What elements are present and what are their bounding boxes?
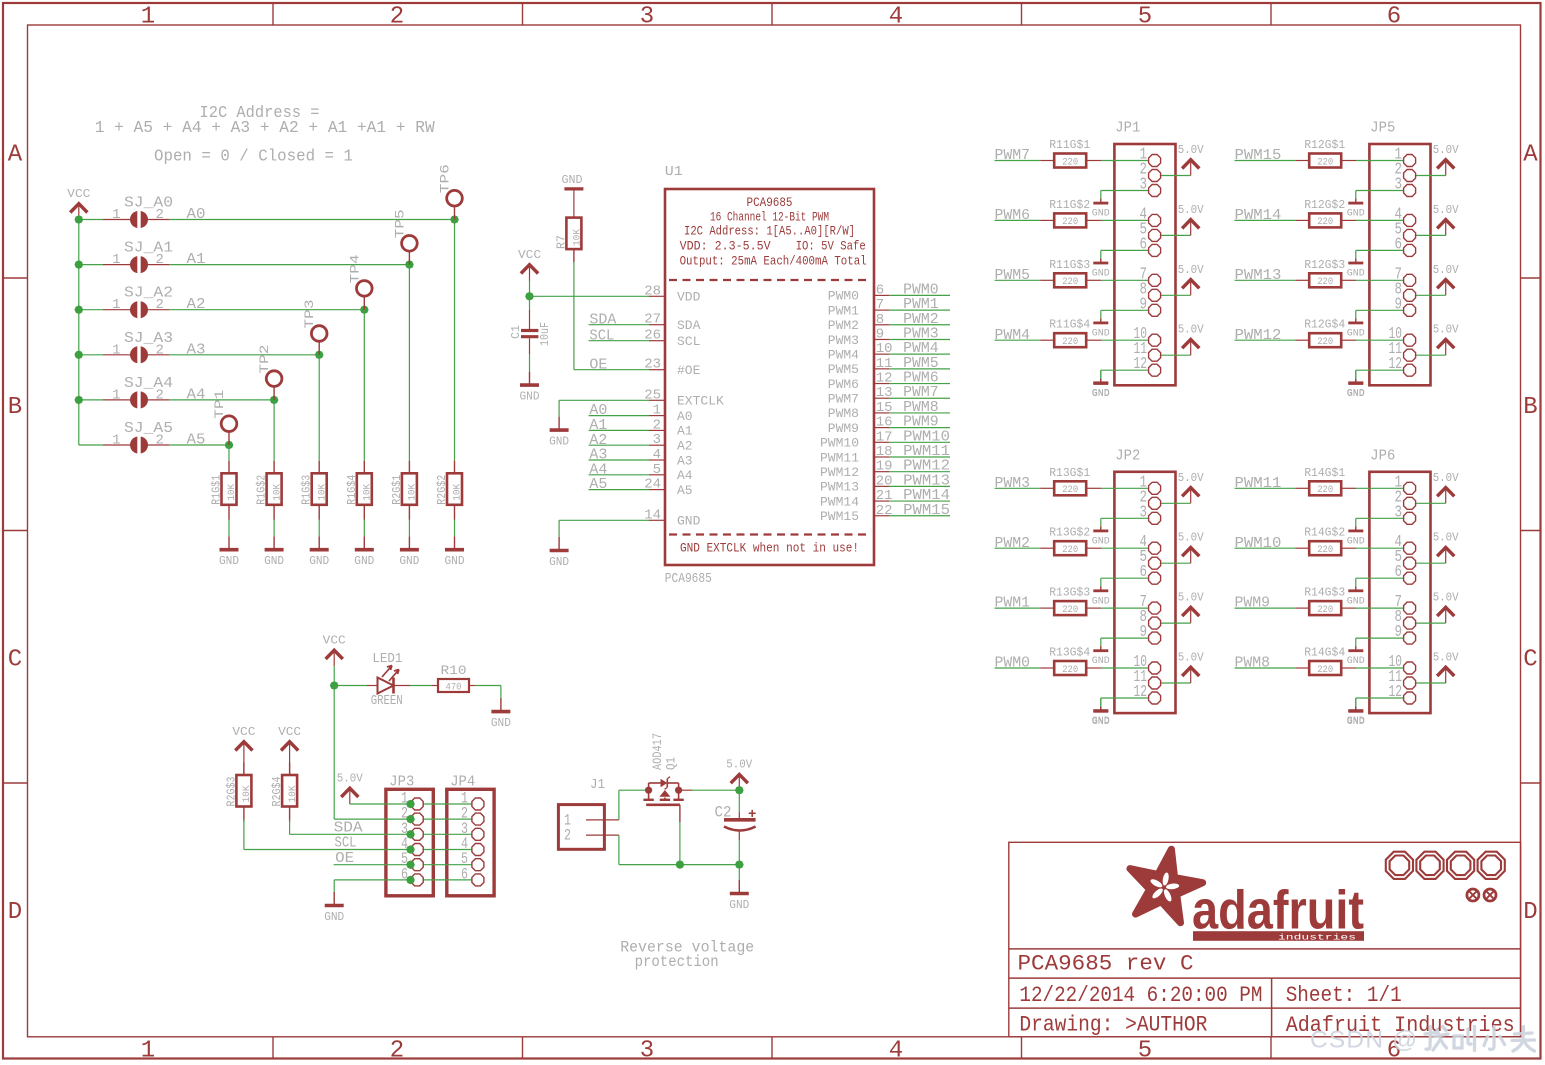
svg-text:20: 20 bbox=[876, 473, 893, 489]
svg-text:220: 220 bbox=[1317, 485, 1333, 496]
svg-text:5.0V: 5.0V bbox=[1433, 591, 1460, 605]
svg-text:10K: 10K bbox=[316, 483, 328, 501]
svg-text:GND: GND bbox=[219, 555, 239, 568]
svg-text:GND: GND bbox=[729, 899, 749, 912]
svg-text:6: 6 bbox=[401, 865, 408, 883]
svg-text:A5: A5 bbox=[677, 483, 693, 498]
svg-text:industries: industries bbox=[1278, 934, 1356, 943]
svg-text:2: 2 bbox=[390, 1038, 404, 1065]
svg-text:A1: A1 bbox=[187, 251, 206, 268]
svg-text:220: 220 bbox=[1062, 337, 1078, 348]
svg-text:A5: A5 bbox=[187, 432, 206, 449]
svg-text:R2G$3: R2G$3 bbox=[224, 777, 238, 807]
svg-text:R10: R10 bbox=[441, 663, 467, 678]
svg-text:A4: A4 bbox=[677, 468, 693, 483]
svg-text:PWM14: PWM14 bbox=[1235, 207, 1282, 224]
svg-text:GND: GND bbox=[549, 436, 569, 449]
svg-text:GND: GND bbox=[1347, 388, 1365, 400]
svg-text:GND: GND bbox=[309, 555, 329, 568]
svg-text:protection: protection bbox=[635, 953, 719, 971]
svg-text:220: 220 bbox=[1062, 665, 1078, 676]
svg-text:5.0V: 5.0V bbox=[1178, 263, 1205, 277]
svg-text:19: 19 bbox=[876, 459, 893, 475]
svg-text:J1: J1 bbox=[590, 777, 605, 793]
svg-text:16 Channel 12-Bit PWM: 16 Channel 12-Bit PWM bbox=[710, 211, 829, 225]
svg-text:5.0V: 5.0V bbox=[1433, 471, 1460, 485]
svg-text:5.0V: 5.0V bbox=[1178, 203, 1205, 217]
svg-text:R12G$4: R12G$4 bbox=[1304, 318, 1345, 332]
svg-text:GND: GND bbox=[1347, 327, 1365, 339]
svg-text:PWM11: PWM11 bbox=[1235, 475, 1282, 492]
svg-text:OE: OE bbox=[589, 356, 607, 373]
svg-text:#OE: #OE bbox=[677, 363, 701, 378]
svg-text:10K: 10K bbox=[241, 785, 253, 803]
svg-text:C: C bbox=[8, 647, 22, 674]
svg-text:5: 5 bbox=[1138, 1038, 1152, 1065]
svg-text:VDD: 2.3-5.5V: VDD: 2.3-5.5V bbox=[680, 240, 771, 254]
svg-text:PWM5: PWM5 bbox=[995, 267, 1031, 284]
svg-text:JP1: JP1 bbox=[1115, 120, 1140, 137]
svg-text:R11G$1: R11G$1 bbox=[1049, 138, 1090, 152]
svg-text:SJ_A5: SJ_A5 bbox=[124, 420, 173, 437]
svg-text:220: 220 bbox=[1062, 217, 1078, 228]
svg-text:10K: 10K bbox=[226, 483, 238, 501]
svg-text:PWM5: PWM5 bbox=[828, 362, 859, 377]
svg-text:10K: 10K bbox=[287, 785, 299, 803]
svg-text:SDA: SDA bbox=[677, 318, 701, 333]
svg-text:SDA: SDA bbox=[589, 311, 616, 328]
svg-text:10: 10 bbox=[876, 341, 893, 357]
svg-text:GND: GND bbox=[1092, 388, 1110, 400]
svg-text:9: 9 bbox=[1395, 294, 1403, 313]
svg-text:PWM15: PWM15 bbox=[903, 502, 950, 519]
svg-text:JP4: JP4 bbox=[450, 774, 475, 791]
svg-text:220: 220 bbox=[1317, 157, 1333, 168]
svg-text:1: 1 bbox=[141, 1038, 155, 1065]
svg-text:GND: GND bbox=[264, 555, 284, 568]
svg-text:VCC: VCC bbox=[67, 187, 90, 201]
svg-text:GND: GND bbox=[1347, 716, 1365, 728]
svg-text:10K: 10K bbox=[407, 483, 419, 501]
svg-text:R1G$3: R1G$3 bbox=[300, 475, 314, 505]
svg-text:GREEN: GREEN bbox=[371, 693, 403, 709]
svg-text:1: 1 bbox=[112, 207, 120, 223]
svg-text:18: 18 bbox=[876, 444, 893, 460]
svg-text:GND: GND bbox=[1092, 655, 1110, 667]
svg-text:SJ_A4: SJ_A4 bbox=[124, 375, 173, 392]
svg-text:R14G$2: R14G$2 bbox=[1304, 526, 1345, 540]
svg-text:R12G$2: R12G$2 bbox=[1304, 198, 1345, 212]
svg-text:Drawing: >AUTHOR: Drawing: >AUTHOR bbox=[1019, 1012, 1207, 1037]
svg-text:JP6: JP6 bbox=[1370, 447, 1395, 464]
svg-text:3: 3 bbox=[653, 432, 661, 448]
svg-text:R2G$2: R2G$2 bbox=[435, 475, 449, 505]
svg-text:220: 220 bbox=[1062, 157, 1078, 168]
svg-text:9: 9 bbox=[1140, 294, 1148, 313]
svg-text:PWM12: PWM12 bbox=[820, 465, 859, 480]
svg-text:VCC: VCC bbox=[323, 634, 346, 648]
svg-text:SCL: SCL bbox=[677, 334, 700, 349]
svg-text:Q1: Q1 bbox=[665, 757, 679, 770]
svg-text:7: 7 bbox=[876, 297, 884, 313]
svg-text:17: 17 bbox=[876, 429, 893, 445]
svg-text:1: 1 bbox=[112, 297, 120, 313]
svg-text:A1: A1 bbox=[677, 424, 693, 439]
svg-text:6: 6 bbox=[461, 865, 468, 883]
svg-text:R13G$4: R13G$4 bbox=[1049, 646, 1090, 660]
svg-text:TP6: TP6 bbox=[438, 164, 453, 193]
svg-text:GND: GND bbox=[399, 555, 419, 568]
svg-text:+: + bbox=[748, 807, 756, 823]
svg-text:C2: C2 bbox=[715, 804, 732, 822]
svg-text:PCA9685: PCA9685 bbox=[665, 571, 712, 587]
svg-text:PWM1: PWM1 bbox=[995, 595, 1031, 612]
svg-text:12/22/2014 6:20:00 PM: 12/22/2014 6:20:00 PM bbox=[1019, 983, 1262, 1008]
svg-text:10K: 10K bbox=[452, 483, 464, 501]
svg-text:A2: A2 bbox=[187, 296, 206, 313]
svg-text:JP3: JP3 bbox=[389, 774, 414, 791]
svg-text:GND: GND bbox=[677, 514, 701, 529]
svg-text:PWM15: PWM15 bbox=[820, 509, 859, 524]
svg-text:2: 2 bbox=[653, 417, 661, 433]
svg-text:VCC: VCC bbox=[518, 248, 541, 262]
svg-text:5.0V: 5.0V bbox=[337, 772, 364, 786]
svg-text:R7: R7 bbox=[555, 235, 569, 249]
svg-text:AOD417: AOD417 bbox=[651, 733, 665, 770]
svg-text:GND: GND bbox=[1347, 655, 1365, 667]
svg-text:3: 3 bbox=[640, 4, 654, 31]
svg-text:220: 220 bbox=[1317, 605, 1333, 616]
svg-text:R11G$3: R11G$3 bbox=[1049, 258, 1090, 272]
svg-text:4: 4 bbox=[889, 1038, 903, 1065]
svg-text:5.0V: 5.0V bbox=[1178, 471, 1205, 485]
svg-text:PWM15: PWM15 bbox=[1235, 147, 1282, 164]
svg-text:12: 12 bbox=[1134, 354, 1148, 373]
svg-text:PWM4: PWM4 bbox=[828, 347, 859, 362]
svg-text:R1G$2: R1G$2 bbox=[255, 475, 269, 505]
svg-text:A3: A3 bbox=[187, 341, 206, 358]
svg-text:6: 6 bbox=[1395, 562, 1403, 581]
svg-text:I2C Address: 1[A5..A0][R/W]: I2C Address: 1[A5..A0][R/W] bbox=[684, 225, 855, 239]
svg-text:OE: OE bbox=[335, 850, 354, 867]
svg-text:PWM12: PWM12 bbox=[1235, 327, 1282, 344]
svg-text:GND: GND bbox=[1092, 327, 1110, 339]
svg-text:5.0V: 5.0V bbox=[1433, 531, 1460, 545]
svg-text:CSDN @: CSDN @ bbox=[1310, 1027, 1418, 1054]
svg-text:22: 22 bbox=[876, 503, 893, 519]
svg-text:PWM14: PWM14 bbox=[820, 494, 859, 509]
svg-text:2: 2 bbox=[390, 4, 404, 31]
svg-text:GND: GND bbox=[1092, 268, 1110, 280]
svg-text:GND: GND bbox=[445, 555, 465, 568]
svg-text:5: 5 bbox=[653, 462, 661, 478]
svg-text:SJ_A2: SJ_A2 bbox=[124, 285, 173, 302]
svg-text:5: 5 bbox=[1138, 4, 1152, 31]
svg-text:6: 6 bbox=[1395, 234, 1403, 253]
svg-text:5.0V: 5.0V bbox=[1178, 143, 1205, 157]
svg-text:PWM7: PWM7 bbox=[828, 392, 859, 407]
svg-text:GND: GND bbox=[562, 174, 583, 187]
svg-text:10K: 10K bbox=[362, 483, 374, 501]
svg-text:5.0V: 5.0V bbox=[1433, 651, 1460, 665]
svg-text:PCA9685: PCA9685 bbox=[747, 196, 793, 210]
svg-text:TP5: TP5 bbox=[392, 209, 407, 238]
svg-text:PWM0: PWM0 bbox=[828, 289, 859, 304]
svg-text:220: 220 bbox=[1062, 277, 1078, 288]
svg-text:470: 470 bbox=[446, 682, 462, 693]
svg-text:R2G$1: R2G$1 bbox=[390, 475, 404, 505]
svg-text:GND: GND bbox=[491, 717, 511, 730]
svg-text:11: 11 bbox=[876, 356, 893, 372]
svg-text:1 + A5 + A4 + A3 + A2 + A1 +A1: 1 + A5 + A4 + A3 + A2 + A1 +A1 + RW bbox=[95, 119, 436, 138]
svg-text:12: 12 bbox=[1134, 682, 1148, 701]
svg-text:VCC: VCC bbox=[278, 725, 301, 739]
svg-text:SJ_A1: SJ_A1 bbox=[124, 240, 173, 257]
svg-text:PWM4: PWM4 bbox=[995, 327, 1031, 344]
svg-text:R1G$4: R1G$4 bbox=[345, 475, 359, 505]
svg-text:JP2: JP2 bbox=[1115, 447, 1140, 464]
svg-text:9: 9 bbox=[1395, 622, 1403, 641]
svg-text:PWM10: PWM10 bbox=[1235, 535, 1282, 552]
svg-text:3: 3 bbox=[640, 1038, 654, 1065]
svg-text:A: A bbox=[8, 142, 23, 169]
svg-text:1: 1 bbox=[112, 387, 120, 403]
svg-text:1: 1 bbox=[653, 403, 661, 419]
svg-text:3: 3 bbox=[1395, 175, 1403, 194]
svg-text:5.0V: 5.0V bbox=[1433, 323, 1460, 337]
svg-text:TP3: TP3 bbox=[302, 300, 317, 329]
svg-text:220: 220 bbox=[1062, 485, 1078, 496]
svg-text:LED1: LED1 bbox=[372, 651, 402, 667]
svg-text:PWM13: PWM13 bbox=[1235, 267, 1282, 284]
svg-text:5.0V: 5.0V bbox=[1433, 143, 1460, 157]
svg-text:A4: A4 bbox=[187, 386, 206, 403]
svg-text:10K: 10K bbox=[571, 228, 583, 246]
svg-text:R12G$3: R12G$3 bbox=[1304, 258, 1345, 272]
svg-text:GND: GND bbox=[1347, 535, 1365, 547]
svg-text:1: 1 bbox=[112, 252, 120, 268]
svg-text:R11G$4: R11G$4 bbox=[1049, 318, 1090, 332]
svg-text:220: 220 bbox=[1317, 665, 1333, 676]
svg-text:B: B bbox=[8, 394, 22, 421]
svg-text:GND: GND bbox=[1347, 268, 1365, 280]
svg-text:5.0V: 5.0V bbox=[726, 758, 753, 772]
svg-text:PWM9: PWM9 bbox=[828, 421, 859, 436]
svg-text:PWM0: PWM0 bbox=[995, 655, 1031, 672]
svg-text:U1: U1 bbox=[665, 164, 683, 180]
svg-text:1: 1 bbox=[141, 4, 155, 31]
svg-text:R12G$1: R12G$1 bbox=[1304, 138, 1345, 152]
svg-text:A0: A0 bbox=[677, 409, 693, 424]
svg-text:5.0V: 5.0V bbox=[1178, 323, 1205, 337]
svg-text:6: 6 bbox=[1140, 234, 1148, 253]
svg-text:PWM9: PWM9 bbox=[1235, 595, 1271, 612]
svg-text:PWM11: PWM11 bbox=[820, 450, 859, 465]
svg-text:TP4: TP4 bbox=[347, 254, 362, 283]
svg-text:GND: GND bbox=[1347, 595, 1365, 607]
svg-text:A2: A2 bbox=[677, 439, 693, 454]
svg-text:A: A bbox=[1523, 142, 1538, 169]
svg-text:GND: GND bbox=[1092, 716, 1110, 728]
svg-text:GND EXTCLK when not in use!: GND EXTCLK when not in use! bbox=[680, 542, 859, 556]
svg-text:GND: GND bbox=[324, 911, 344, 924]
svg-text:10uF: 10uF bbox=[538, 322, 552, 346]
svg-text:R13G$1: R13G$1 bbox=[1049, 466, 1090, 480]
svg-text:PWM2: PWM2 bbox=[995, 535, 1031, 552]
svg-text:4: 4 bbox=[889, 4, 903, 31]
svg-text:GND: GND bbox=[1347, 208, 1365, 220]
svg-text:GND: GND bbox=[1092, 535, 1110, 547]
svg-text:8: 8 bbox=[876, 312, 884, 328]
svg-text:Output: 25mA Each/400mA Total: Output: 25mA Each/400mA Total bbox=[680, 255, 867, 269]
svg-text:SCL: SCL bbox=[589, 327, 614, 344]
svg-text:1: 1 bbox=[112, 433, 120, 449]
svg-text:220: 220 bbox=[1317, 545, 1333, 556]
svg-text:220: 220 bbox=[1062, 605, 1078, 616]
svg-text:GND: GND bbox=[520, 391, 540, 404]
svg-text:4: 4 bbox=[653, 447, 661, 463]
svg-text:220: 220 bbox=[1062, 545, 1078, 556]
svg-text:GND: GND bbox=[549, 556, 569, 569]
svg-text:IO: 5V Safe: IO: 5V Safe bbox=[796, 240, 866, 254]
svg-text:16: 16 bbox=[876, 415, 893, 431]
svg-text:5.0V: 5.0V bbox=[1178, 531, 1205, 545]
svg-text:PWM2: PWM2 bbox=[828, 318, 859, 333]
svg-text:R13G$2: R13G$2 bbox=[1049, 526, 1090, 540]
svg-text:220: 220 bbox=[1317, 217, 1333, 228]
svg-text:R11G$2: R11G$2 bbox=[1049, 198, 1090, 212]
svg-text:TP2: TP2 bbox=[257, 345, 272, 374]
svg-text:PCA9685 rev C: PCA9685 rev C bbox=[1018, 951, 1194, 977]
svg-text:PWM3: PWM3 bbox=[828, 333, 859, 348]
svg-text:PWM6: PWM6 bbox=[995, 207, 1031, 224]
svg-text:R13G$3: R13G$3 bbox=[1049, 586, 1090, 600]
svg-text:5.0V: 5.0V bbox=[1433, 263, 1460, 277]
svg-text:PWM7: PWM7 bbox=[995, 147, 1031, 164]
svg-text:PWM13: PWM13 bbox=[820, 480, 859, 495]
svg-text:A5: A5 bbox=[589, 476, 607, 493]
svg-text:PWM10: PWM10 bbox=[820, 436, 859, 451]
svg-text:GND: GND bbox=[354, 555, 374, 568]
svg-text:9: 9 bbox=[876, 326, 884, 342]
svg-text:R14G$1: R14G$1 bbox=[1304, 466, 1345, 480]
svg-text:R14G$3: R14G$3 bbox=[1304, 586, 1345, 600]
svg-text:220: 220 bbox=[1317, 277, 1333, 288]
svg-text:15: 15 bbox=[876, 400, 893, 416]
svg-text:A3: A3 bbox=[677, 453, 693, 468]
svg-text:5.0V: 5.0V bbox=[1178, 651, 1205, 665]
svg-text:1: 1 bbox=[112, 342, 120, 358]
svg-text:GND: GND bbox=[1092, 208, 1110, 220]
svg-text:5.0V: 5.0V bbox=[1433, 203, 1460, 217]
svg-text:A0: A0 bbox=[187, 206, 206, 223]
svg-text:PWM1: PWM1 bbox=[828, 303, 859, 318]
svg-text:9: 9 bbox=[1140, 622, 1148, 641]
svg-text:6: 6 bbox=[1387, 4, 1401, 31]
svg-text:VDD: VDD bbox=[677, 290, 701, 305]
svg-text:JP5: JP5 bbox=[1370, 120, 1395, 137]
svg-text:Sheet: 1/1: Sheet: 1/1 bbox=[1286, 983, 1402, 1008]
svg-text:Open = 0 / Closed = 1: Open = 0 / Closed = 1 bbox=[154, 148, 353, 167]
svg-text:PWM8: PWM8 bbox=[1235, 655, 1271, 672]
svg-text:R2G$4: R2G$4 bbox=[270, 777, 284, 807]
svg-text:12: 12 bbox=[876, 371, 893, 387]
svg-text:B: B bbox=[1523, 394, 1537, 421]
svg-text:PWM8: PWM8 bbox=[828, 406, 859, 421]
svg-text:13: 13 bbox=[876, 385, 893, 401]
svg-text:220: 220 bbox=[1317, 337, 1333, 348]
svg-text:21: 21 bbox=[876, 488, 893, 504]
svg-text:EXTCLK: EXTCLK bbox=[677, 394, 724, 409]
svg-text:2: 2 bbox=[564, 827, 571, 845]
svg-text:PWM6: PWM6 bbox=[828, 377, 859, 392]
svg-text:3: 3 bbox=[1140, 175, 1148, 194]
svg-text:D: D bbox=[1523, 899, 1537, 926]
svg-text:R14G$4: R14G$4 bbox=[1304, 646, 1345, 660]
svg-text:TP1: TP1 bbox=[212, 389, 227, 418]
svg-text:D: D bbox=[8, 899, 22, 926]
svg-text:C1: C1 bbox=[509, 325, 523, 339]
svg-text:VCC: VCC bbox=[232, 725, 255, 739]
svg-text:PWM3: PWM3 bbox=[995, 475, 1031, 492]
svg-text:C: C bbox=[1523, 647, 1537, 674]
svg-text:12: 12 bbox=[1389, 682, 1403, 701]
svg-text:12: 12 bbox=[1389, 354, 1403, 373]
svg-text:3: 3 bbox=[1395, 502, 1403, 521]
svg-text:10K: 10K bbox=[271, 483, 283, 501]
svg-text:6: 6 bbox=[876, 282, 884, 298]
svg-text:5.0V: 5.0V bbox=[1178, 591, 1205, 605]
svg-text:6: 6 bbox=[1140, 562, 1148, 581]
svg-text:SJ_A3: SJ_A3 bbox=[124, 330, 173, 347]
svg-text:SJ_A0: SJ_A0 bbox=[124, 195, 173, 212]
svg-text:R1G$1: R1G$1 bbox=[210, 475, 224, 505]
svg-text:3: 3 bbox=[1140, 502, 1148, 521]
svg-text:GND: GND bbox=[1092, 595, 1110, 607]
